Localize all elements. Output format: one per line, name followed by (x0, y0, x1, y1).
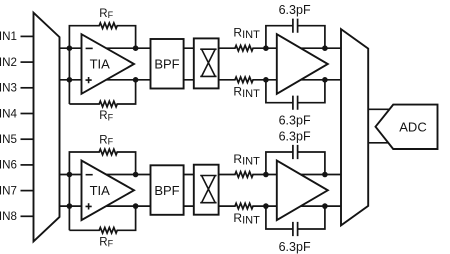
svg-text:BPF: BPF (154, 183, 179, 198)
wire input stub IN2 (21, 61, 35, 63)
svg-text:IN7: IN7 (0, 184, 17, 197)
wire BPF to crossover box (channel A) (184, 48, 194, 80)
wire input stub IN7 (21, 190, 35, 192)
block BPF (channel B) (151, 165, 184, 215)
wire mux to TIA non-inverting input (channel B) (59, 205, 83, 207)
svg-text:IN1: IN1 (0, 30, 17, 43)
svg-text:IN4: IN4 (0, 107, 17, 120)
node TIA input bus top (channel A) (67, 45, 73, 51)
svg-text:ADC: ADC (399, 119, 426, 134)
wire BPF to crossover box (channel B) (184, 175, 194, 207)
wire + capacitor 6.3pF bottom feedback (channel A) (266, 80, 325, 110)
node TIA input bus bottom (channel B) (67, 203, 73, 209)
svg-text:RF: RF (99, 8, 113, 20)
svg-text:6.3pF: 6.3pF (279, 114, 311, 128)
op-amp TIA (channel A) (82, 34, 135, 94)
block BPF (channel A) (151, 39, 184, 89)
wire mux to TIA inverting input (channel A) (59, 47, 83, 49)
wire TIA outputs to BPF (channel B) (100, 175, 151, 207)
wire amp outputs to output mux (channel B) (296, 175, 341, 207)
wire + resistor RINT bottom (channel B) (219, 203, 278, 209)
svg-text:6.3pF: 6.3pF (279, 129, 311, 143)
minus sign TIA inverting input (channel B) (86, 174, 93, 176)
input multiplexer (34, 13, 60, 242)
wire + resistor RINT bottom (channel A) (219, 77, 278, 83)
block crossover/limiter box (channel B) (194, 165, 219, 215)
crossover X symbol (channel B) (200, 176, 216, 203)
svg-text:RF: RF (99, 110, 113, 122)
output multiplexer (341, 29, 368, 225)
wire mux to TIA non-inverting input (channel A) (59, 79, 83, 81)
wire input stub IN8 (21, 215, 35, 217)
block crossover/limiter box (channel A) (194, 38, 219, 88)
wire + resistor RF bottom feedback loop (channel B) (69, 206, 135, 233)
node amp output bus top (channel A) (322, 45, 328, 51)
wire mux to TIA inverting input (channel B) (59, 174, 83, 176)
wire input stub IN5 (21, 138, 35, 140)
svg-text:TIA: TIA (90, 57, 111, 72)
wire + resistor RF bottom feedback loop (channel A) (69, 80, 135, 107)
svg-text:RF: RF (99, 236, 113, 248)
svg-text:IN3: IN3 (0, 82, 17, 95)
node TIA output bus bottom (channel A) (133, 77, 139, 83)
node TIA output bus top (channel B) (133, 172, 139, 178)
wire mux to ADC top (368, 108, 390, 110)
wire + resistor RINT top (channel A) (219, 45, 278, 51)
wire amp outputs to output mux (channel A) (296, 48, 341, 80)
wire input stub IN6 (21, 164, 35, 166)
node amp output bus bottom (channel B) (322, 203, 328, 209)
node TIA input bus top (channel B) (67, 172, 73, 178)
plus sign TIA non-inverting input (channel B) (86, 203, 92, 209)
node TIA output bus bottom (channel B) (133, 203, 139, 209)
crossover X symbol (channel A) (200, 49, 216, 76)
svg-text:IN8: IN8 (0, 210, 17, 223)
svg-text:IN6: IN6 (0, 159, 17, 172)
node amp output bus bottom (channel A) (322, 77, 328, 83)
wire input stub IN3 (21, 87, 35, 89)
op-amp output driver (channel A) (277, 34, 328, 94)
svg-text:RF: RF (99, 134, 113, 146)
wire + resistor RINT top (channel B) (219, 172, 278, 178)
svg-text:IN5: IN5 (0, 133, 17, 146)
node amp input bus top (channel A) (263, 45, 269, 51)
wire + resistor RF top feedback loop (channel B) (69, 149, 135, 230)
svg-text:6.3pF: 6.3pF (279, 3, 311, 17)
node amp input bus bottom (channel A) (263, 77, 269, 83)
wire + capacitor 6.3pF top feedback (channel B) (266, 145, 325, 175)
wire + resistor RF top feedback loop (channel A) (69, 23, 135, 104)
wire input stub IN1 (21, 35, 35, 37)
wire + capacitor 6.3pF bottom feedback (channel B) (266, 206, 325, 236)
plus sign TIA non-inverting input (channel A) (86, 77, 92, 83)
wire + capacitor 6.3pF top feedback (channel A) (266, 19, 325, 49)
wire TIA outputs to BPF (channel A) (100, 48, 151, 80)
block ADC (376, 105, 438, 149)
svg-text:6.3pF: 6.3pF (279, 240, 311, 254)
op-amp TIA (channel B) (82, 161, 135, 221)
wire input stub IN4 (21, 113, 35, 115)
wire mux to ADC bottom (368, 142, 390, 144)
node TIA output bus top (channel A) (133, 45, 139, 51)
svg-text:TIA: TIA (90, 183, 111, 198)
node amp output bus top (channel B) (322, 172, 328, 178)
op-amp output driver (channel B) (277, 161, 328, 221)
node amp input bus top (channel B) (263, 172, 269, 178)
node amp input bus bottom (channel B) (263, 203, 269, 209)
svg-text:IN2: IN2 (0, 56, 17, 69)
minus sign TIA inverting input (channel A) (86, 47, 93, 49)
node TIA input bus bottom (channel A) (67, 77, 73, 83)
svg-text:BPF: BPF (154, 56, 179, 71)
